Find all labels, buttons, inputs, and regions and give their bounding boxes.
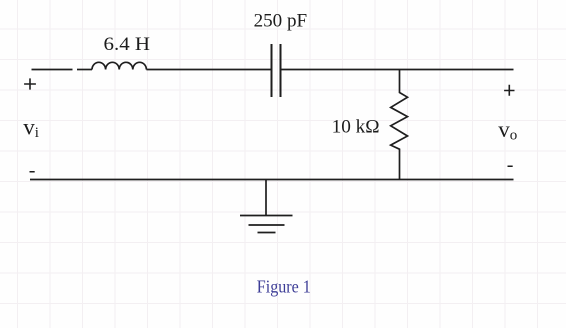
- svg-text:6.4 H: 6.4 H: [104, 34, 151, 55]
- svg-text:Figure 1: Figure 1: [257, 277, 311, 297]
- svg-text:10 kΩ: 10 kΩ: [332, 116, 380, 137]
- svg-text:-: -: [507, 154, 514, 176]
- svg-text:-: -: [29, 160, 36, 182]
- svg-text:250 pF: 250 pF: [254, 11, 308, 32]
